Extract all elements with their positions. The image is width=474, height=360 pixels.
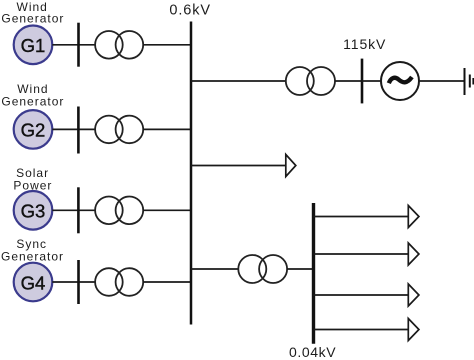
svg-text:Generator: Generator: [1, 249, 64, 263]
bus tick row 3: [77, 187, 80, 233]
svg-text:G4: G4: [21, 272, 46, 293]
wire T6 to 0.04kV bus: [287, 268, 313, 270]
grid source U1 (AC): [381, 62, 419, 100]
bus tick row 4: [77, 260, 80, 304]
transformer T2: [95, 116, 143, 144]
wire G2 to transformer: [52, 128, 95, 130]
bus tick row 2: [77, 107, 80, 154]
svg-text:G2: G2: [21, 120, 46, 141]
wire 115kV bus to grid source: [362, 80, 381, 82]
wire feeder 1: [314, 216, 409, 218]
wire T2 to bus: [143, 128, 191, 130]
ground: [465, 68, 474, 95]
wire feeder 4: [314, 329, 409, 331]
label G3: Solar Power: [13, 166, 52, 193]
wire bus to transformer T5: [191, 80, 286, 82]
transformer T6: [238, 255, 287, 283]
load arrow A5: [408, 319, 419, 341]
load arrow A2: [408, 206, 419, 228]
generator G2: [14, 110, 53, 149]
wire T4 to bus: [143, 281, 191, 283]
wire T3 to bus: [143, 209, 191, 211]
generator G4: [14, 263, 53, 302]
bus tick row 1: [77, 23, 80, 67]
label G1: Wind Generator: [1, 0, 64, 25]
wire feeder 2: [314, 253, 409, 255]
label G4: Sync Generator: [1, 237, 64, 264]
generator G1: [14, 26, 53, 65]
wire bus to feeder arrow: [191, 165, 286, 167]
svg-text:G1: G1: [21, 35, 46, 56]
load arrow A1: [286, 155, 296, 177]
svg-text:Generator: Generator: [1, 94, 64, 108]
wire G1 to transformer: [52, 44, 95, 46]
wire bus to transformer T6: [191, 268, 238, 270]
transformer T3: [95, 197, 143, 225]
wire T5 to 115kV bus: [335, 80, 362, 82]
wire G4 to transformer: [52, 281, 95, 283]
transformer T1: [95, 31, 143, 59]
wire T1 to bus: [143, 44, 191, 46]
bus 0.04kV: [312, 203, 315, 344]
generator G3: [14, 191, 53, 230]
bus 115kV: [361, 59, 364, 104]
svg-text:Generator: Generator: [1, 11, 64, 25]
load arrow A3: [408, 243, 419, 265]
label G2: Wind Generator: [1, 82, 64, 108]
wire feeder 3: [314, 294, 409, 296]
svg-text:G3: G3: [21, 201, 46, 222]
bus 0.6kV: [190, 22, 193, 325]
svg-text:0.04kV: 0.04kV: [289, 344, 336, 360]
load arrow A4: [408, 284, 419, 306]
svg-text:115kV: 115kV: [343, 36, 386, 52]
transformer T5: [286, 67, 335, 95]
transformer T4: [95, 268, 143, 296]
wire G3 to transformer: [52, 209, 95, 211]
wire grid source to ground: [419, 80, 464, 82]
svg-text:0.6kV: 0.6kV: [169, 3, 211, 19]
